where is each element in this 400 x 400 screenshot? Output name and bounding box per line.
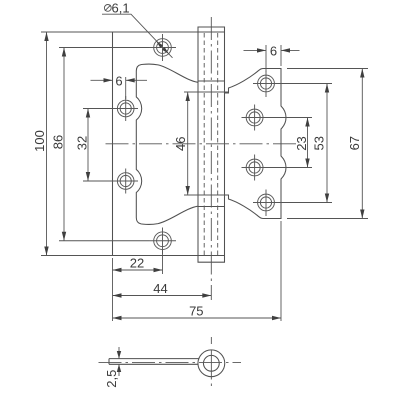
svg-text:86: 86 <box>51 135 66 149</box>
right dims extension lines <box>262 69 368 219</box>
hole bottom-left (162.5,240.75) <box>149 228 176 255</box>
svg-text:23: 23 <box>294 136 309 150</box>
dim 86 <box>51 48 67 241</box>
dim 6 left <box>91 73 148 99</box>
bottom view: leaf bar <box>109 359 200 365</box>
dim 32 <box>75 109 91 182</box>
dim 75 <box>113 304 282 321</box>
right leaf hole 4 <box>253 190 279 217</box>
svg-text:6: 6 <box>115 73 122 88</box>
left leaf outer edges <box>113 32 199 256</box>
svg-text:22: 22 <box>130 256 144 271</box>
barrel (knuckle) <box>198 27 225 262</box>
left leaf scalloped contour <box>136 64 198 224</box>
svg-text:75: 75 <box>189 304 203 319</box>
dim 100 <box>32 32 49 256</box>
right leaf outline <box>225 69 287 219</box>
dim 22 <box>113 256 163 273</box>
svg-text:32: 32 <box>75 136 90 150</box>
bottom view: barrel circles <box>198 350 225 377</box>
svg-text:46: 46 <box>173 137 188 151</box>
svg-text:100: 100 <box>32 130 47 152</box>
svg-text:67: 67 <box>347 136 362 150</box>
dim 6 right <box>244 43 300 72</box>
hole left-mid-lower <box>113 169 138 194</box>
horizontal centerline <box>106 143 297 145</box>
dim 23 <box>294 118 310 168</box>
dim 44 <box>113 281 212 298</box>
svg-text:6,1: 6,1 <box>112 1 130 16</box>
svg-text:53: 53 <box>312 136 327 150</box>
bottom dims: extension lines <box>113 221 282 321</box>
dim 53 <box>312 84 330 203</box>
dia 6,1 label + leader <box>102 1 173 58</box>
svg-text:2,5: 2,5 <box>104 370 119 388</box>
hole left-mid-upper <box>113 96 138 121</box>
pin hidden lines <box>204 33 218 255</box>
knuckle division lines <box>184 92 229 195</box>
dim 67 <box>347 69 365 219</box>
svg-text:44: 44 <box>153 281 167 296</box>
right leaf hole 3 <box>242 155 268 181</box>
hole top-left (162.5,47.5) <box>149 34 176 61</box>
pin centerline <box>210 17 212 300</box>
right leaf hole 2 <box>242 105 268 131</box>
bottom view centerlines <box>99 362 242 364</box>
left dims: extension lines <box>41 32 149 256</box>
right leaf hole 1 <box>253 71 279 98</box>
dim 2,5 <box>104 347 121 388</box>
dim 46 <box>173 92 190 195</box>
svg-text:6: 6 <box>270 43 277 58</box>
